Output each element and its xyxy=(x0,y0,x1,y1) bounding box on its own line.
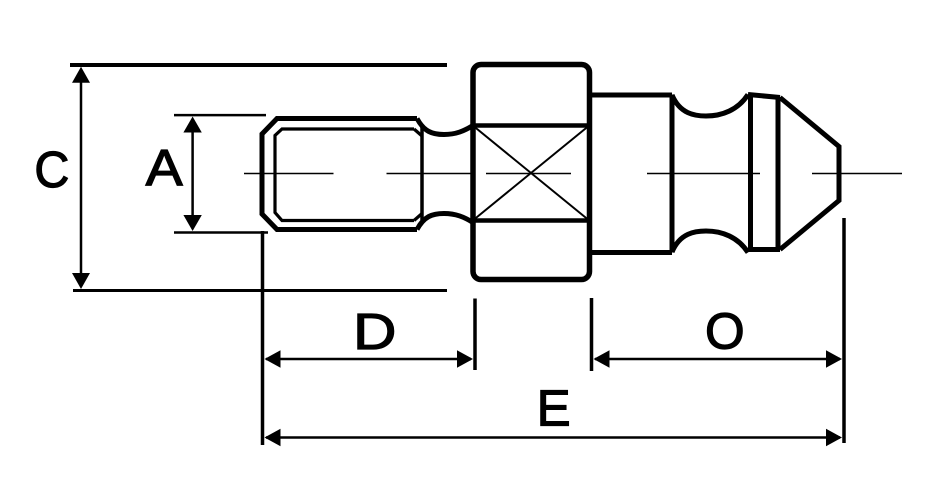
band edges xyxy=(748,94,780,250)
dimension line E xyxy=(265,429,843,446)
extension line A bottom xyxy=(174,231,268,234)
flange X diagonal 2 xyxy=(474,127,588,220)
svg-text:A: A xyxy=(146,141,184,197)
extension line O left xyxy=(590,298,594,371)
cone nose xyxy=(780,98,839,250)
groove arc bottom xyxy=(672,231,748,253)
svg-text:C: C xyxy=(34,141,69,198)
extension line O E right xyxy=(842,218,846,443)
thread minor diameter lines xyxy=(275,129,422,221)
svg-text:D: D xyxy=(353,303,396,360)
extension line D E left xyxy=(261,231,265,445)
dimension line A xyxy=(183,117,201,232)
flange X diagonal 1 xyxy=(474,127,588,220)
neck fillet top xyxy=(417,119,473,135)
flange face line bottom xyxy=(473,218,590,223)
flange face line top xyxy=(473,123,590,128)
neck fillet bottom xyxy=(417,214,473,230)
extension line D right xyxy=(473,299,477,371)
cylinder section xyxy=(590,95,673,253)
thread outer profile xyxy=(262,119,417,230)
dimension line C xyxy=(72,67,90,289)
svg-text:O: O xyxy=(705,303,745,360)
thread runout line xyxy=(420,127,424,220)
dimension line D xyxy=(265,350,474,367)
dimension line O xyxy=(594,350,843,367)
groove arc top xyxy=(672,95,748,117)
extension line C bottom xyxy=(73,289,447,292)
hex flange outline xyxy=(473,65,590,280)
extension line C top xyxy=(70,63,447,67)
centerline xyxy=(244,173,902,175)
svg-text:E: E xyxy=(537,379,571,436)
extension line A top xyxy=(174,114,266,117)
